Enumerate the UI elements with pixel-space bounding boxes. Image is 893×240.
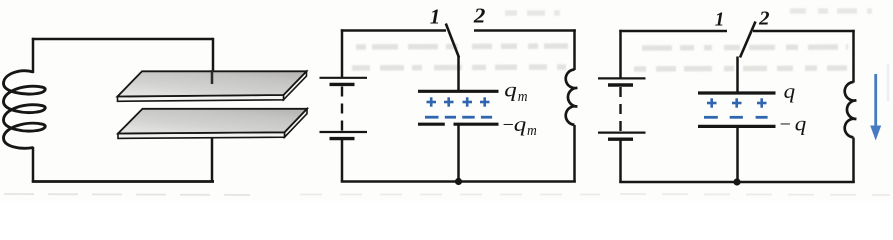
capacitor plate P1 top face [118,71,307,96]
wire: middle top-left segment to contact 1 [341,29,446,32]
wire: middle branch upper (lever to capacitor) [457,57,460,93]
plus charges row [707,98,767,107]
page artifact: faint bottom streak [4,194,890,195]
wire: below bottom plate to bottom side [211,139,214,183]
battery B1 cell 2 short plate [330,137,355,140]
svg-text:−: − [780,114,791,136]
current arrow I (blue, downward) [874,74,877,128]
capacitor C1 bottom plate (with print gap) [418,123,445,126]
wire: right branch lower [736,127,739,183]
battery B1 bottom wire [341,139,344,183]
capacitor C2 bottom plate [698,125,776,128]
battery B2 cell 1 long plate [598,77,646,79]
switch lever S2 (thrown to 2) [740,22,756,58]
capacitor plate P1 (top plate, 3D) : side face [284,71,307,100]
capacitor C1 top plate [418,90,499,93]
wire: middle top-right segment from contact 2 [474,29,576,32]
battery B2 cell 2 long plate [598,132,646,134]
capacitor plate P2 front face [118,132,285,138]
wire: left circuit left side lower stub [32,147,35,183]
battery B2 cell 2 short plate [608,137,633,140]
plus charges row [427,97,490,106]
page artifact: bleed-through text smudges [352,11,872,69]
battery B1 : top wire [341,29,344,77]
battery B2 cell 1 short plate [608,83,633,86]
switch lever S1 (thrown to 1) [446,24,459,58]
battery B2 dashed link [619,87,621,132]
inductor L1 (spring coil, 4 turns) [4,71,46,149]
wire: left circuit left side upper stub [32,38,35,73]
junction dot [455,178,462,185]
wire: right top-left segment to contact 1 [619,30,727,33]
wire: middle bottom side [341,180,576,183]
wire: middle right side upper [573,29,576,70]
svg-text:q: q [795,112,807,136]
wire: middle right side lower [573,125,576,183]
minus charges row [704,116,768,119]
battery B1 dashed link [341,87,343,132]
svg-text:m: m [527,123,537,139]
inductor L3 (3 bumps) [845,82,857,137]
wire: right branch upper [736,57,739,94]
battery B2 top wire [619,30,622,78]
page artifact: faint blue edge streak [887,64,890,101]
svg-text:q: q [514,112,527,136]
svg-text:q: q [504,78,517,102]
svg-text:2: 2 [473,4,486,28]
battery B1 cell 2 long plate [320,131,368,133]
minus charges row [425,116,492,119]
battery B2 bottom wire [619,139,622,183]
wire stub into top plate [211,70,214,84]
wire: left circuit top side [32,38,213,41]
battery B1 cell 1 short plate [330,83,355,86]
wire: right bottom side [619,181,854,184]
battery B1 cell 1 long plate [320,77,368,79]
wire: left circuit bottom side [32,180,214,183]
svg-text:1: 1 [715,9,725,31]
capacitor plate P2 (bottom plate, 3D) : side face [285,109,308,137]
svg-text:−: − [503,114,514,136]
wire: right right side lower [852,138,855,184]
wire: middle branch lower (capacitor to bottom) [457,125,460,183]
capacitor plate P2 top face [118,109,307,134]
svg-text:m: m [518,89,528,105]
wire: left circuit right side down to top plate [212,38,215,84]
svg-text:2: 2 [758,7,769,29]
svg-text:1: 1 [430,5,441,29]
capacitor plate P1 front face [118,95,284,101]
wire: right top-right segment from contact 2 [753,30,855,33]
svg-text:q: q [784,79,796,103]
junction dot [733,178,740,185]
capacitor C2 top plate [698,91,776,94]
inductor L2 (3 bumps) [566,70,578,125]
wire: right right side upper [852,30,855,83]
